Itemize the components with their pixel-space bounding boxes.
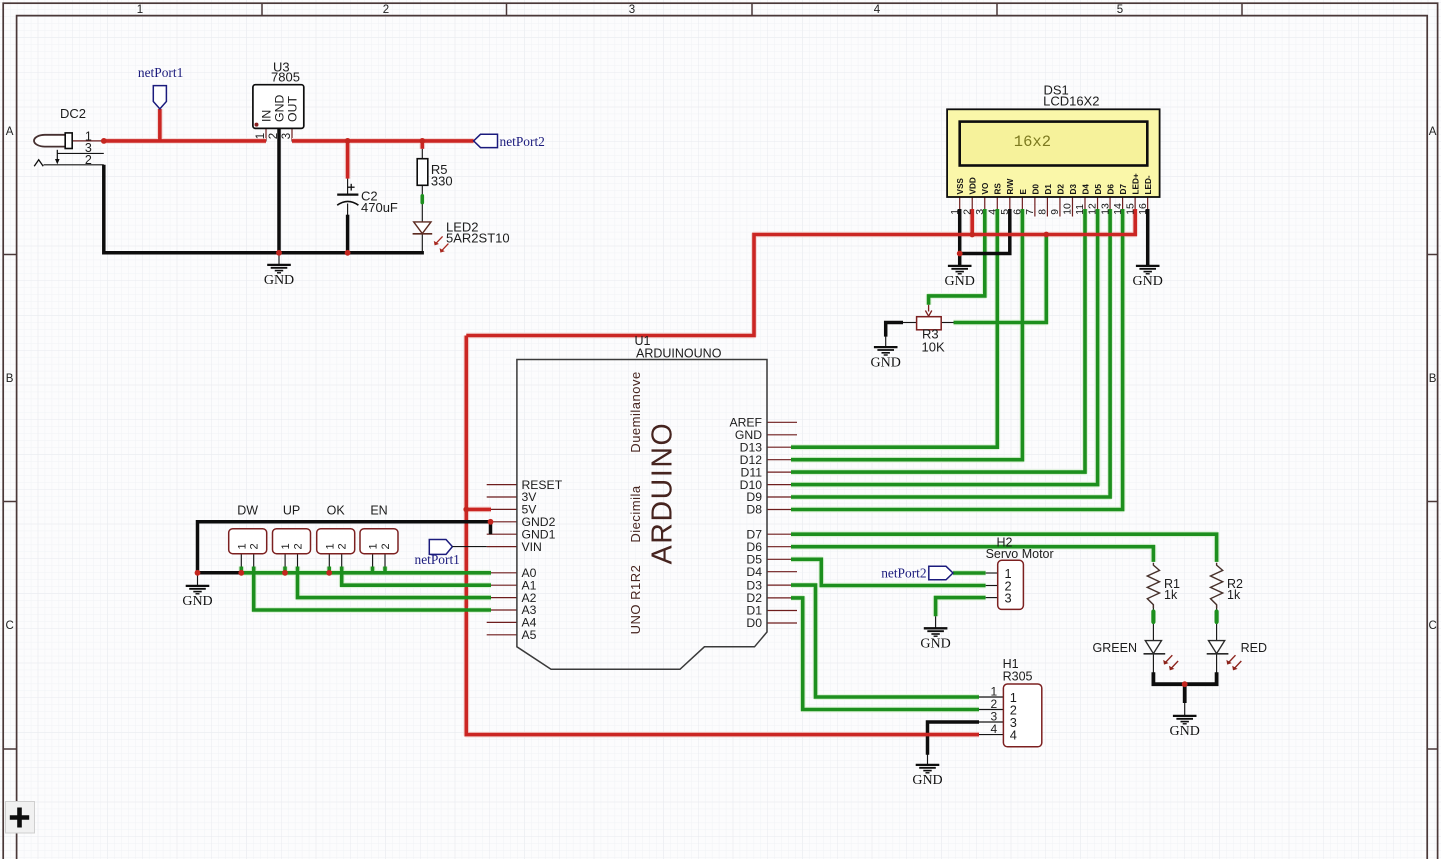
wire: H2 pin3 to ground	[936, 598, 986, 617]
button DW	[229, 529, 267, 554]
svg-text:10K: 10K	[922, 340, 945, 355]
ground (H1)	[916, 764, 940, 766]
svg-text:D3: D3	[1069, 184, 1078, 195]
wire: U3 OUT to netPort2 (5V rail)	[292, 139, 474, 143]
svg-text:1: 1	[324, 543, 336, 549]
svg-text:D0: D0	[1031, 184, 1040, 195]
ground (LCD LED-)	[1136, 265, 1160, 267]
svg-text:330: 330	[431, 173, 453, 188]
wire: A2 net UP pin2	[298, 567, 492, 598]
LED2 bottom lead	[421, 234, 423, 253]
svg-text:1: 1	[950, 209, 961, 215]
svg-text:8: 8	[1038, 209, 1049, 215]
wire: R1 to GREEN led segment	[1151, 612, 1155, 623]
svg-text:GREEN: GREEN	[1093, 641, 1137, 655]
wire: DC2 pin3 lead	[57, 152, 104, 154]
R5 bottom lead / LED2 top lead	[421, 185, 423, 222]
wire: R5 to LED2 green segment	[420, 196, 424, 203]
regulator U3 7805	[253, 85, 304, 129]
svg-text:D5: D5	[1094, 184, 1103, 195]
wire: DC2 pin1 lead	[72, 140, 104, 142]
svg-text:GND: GND	[920, 637, 950, 652]
svg-text:netPort1: netPort1	[138, 65, 183, 80]
svg-text:GND: GND	[945, 274, 975, 289]
svg-text:2: 2	[383, 4, 389, 16]
svg-text:5: 5	[1000, 209, 1011, 215]
R3 left lead	[903, 322, 917, 324]
svg-text:1: 1	[255, 133, 267, 139]
svg-text:OK: OK	[327, 504, 346, 518]
svg-text:EN: EN	[370, 504, 387, 518]
svg-text:R305: R305	[1003, 670, 1033, 684]
svg-text:4: 4	[1010, 727, 1017, 742]
svg-text:LED-: LED-	[1144, 175, 1153, 194]
LED2 5AR2ST10	[414, 222, 431, 234]
svg-text:B: B	[1429, 373, 1437, 385]
resistor R2 1k	[1211, 563, 1223, 609]
wire: A0 net (buttons to A0)	[240, 567, 244, 573]
R5 top lead	[421, 146, 423, 159]
svg-text:DW: DW	[237, 504, 258, 518]
svg-text:5: 5	[1117, 4, 1123, 16]
C2 top lead	[347, 176, 349, 195]
wire: D6 to R1	[791, 547, 1153, 562]
svg-text:VO: VO	[981, 182, 990, 194]
U1 Arduino right pin stubs	[767, 421, 797, 423]
R3 wiper arrow	[928, 303, 930, 312]
net tag netPort1 (top)	[153, 86, 166, 109]
ground (buttons)	[186, 585, 210, 587]
svg-text:A5: A5	[522, 628, 537, 642]
svg-text:C: C	[1428, 620, 1436, 632]
U3 pin 1 stub	[265, 128, 267, 141]
wire: A3 net DW pin2	[254, 567, 491, 611]
svg-text:16x2: 16x2	[1014, 133, 1051, 151]
MCU U1 ARDUINOUNO	[517, 360, 767, 670]
svg-text:UP: UP	[283, 504, 300, 518]
net tag netPort1 (at VIN)	[429, 540, 452, 555]
wire: GND junction to DW pin1	[198, 571, 242, 575]
connector DC2 (power jack)	[34, 135, 66, 147]
svg-text:netPort2: netPort2	[500, 134, 545, 149]
capacitor C2 470uF	[337, 194, 358, 196]
wire: DC2 pin2 lead	[44, 164, 104, 166]
wire: LCD VO to R3 wiper	[929, 209, 985, 305]
svg-text:2: 2	[85, 153, 92, 167]
svg-text:13: 13	[1100, 203, 1111, 215]
wire: R5 tap	[420, 141, 424, 149]
svg-text:2: 2	[337, 543, 349, 549]
svg-text:ARDUINO: ARDUINO	[647, 422, 679, 565]
svg-text:2: 2	[293, 543, 305, 549]
svg-text:VDD: VDD	[969, 177, 978, 194]
wire glow underlay	[104, 138, 266, 144]
wire: LCD E to D12	[791, 209, 1022, 460]
svg-text:3: 3	[975, 209, 986, 215]
LCD DS1 pin stubs (1-16)	[959, 197, 961, 217]
R3 right lead	[941, 322, 953, 324]
wire: C2 bottom to bus	[346, 215, 350, 253]
svg-text:2: 2	[380, 543, 392, 549]
svg-text:4: 4	[987, 209, 998, 215]
potentiometer R3 10K	[917, 317, 942, 330]
wire: ground bus to GND1	[489, 522, 493, 534]
button OK	[317, 529, 355, 554]
wire: DC2 pin2 to ground bus	[104, 165, 424, 253]
wire: C2 tap	[346, 141, 350, 179]
svg-text:D4: D4	[746, 565, 762, 579]
svg-text:GND: GND	[1170, 724, 1200, 739]
svg-text:1k: 1k	[1227, 588, 1241, 602]
net tag netPort2 (at servo)	[929, 566, 953, 580]
svg-text:GND: GND	[1133, 274, 1163, 289]
H2 pin stubs 1-3	[986, 572, 998, 574]
wire: R3 left to ground	[886, 323, 903, 337]
C2 bottom lead	[347, 204, 349, 217]
svg-text:Servo Motor: Servo Motor	[986, 547, 1054, 561]
ground (R3)	[874, 346, 898, 348]
wire: LCD D4 to D11	[791, 209, 1085, 472]
button EN	[360, 529, 398, 554]
resistor R5 330	[417, 159, 428, 186]
plus cursor icon	[6, 802, 35, 834]
GND stubs	[278, 253, 280, 266]
wire: netPort2 to H2 pin1	[953, 571, 986, 575]
svg-text:netPort2: netPort2	[881, 566, 926, 581]
net tag netPort2 (top)	[474, 134, 498, 147]
wire: H1 pin3 to ground	[928, 722, 980, 755]
svg-text:GND: GND	[912, 773, 942, 788]
wire: 5V rail to LCD LED+ (top run)	[466, 209, 1135, 336]
svg-text:11: 11	[1075, 204, 1086, 215]
svg-text:RS: RS	[994, 183, 1003, 195]
LED GREEN	[1145, 641, 1161, 654]
svg-text:D0: D0	[746, 616, 762, 630]
svg-text:RED: RED	[1241, 641, 1267, 655]
svg-text:1k: 1k	[1164, 588, 1178, 602]
U3 pin 3 stub	[291, 128, 293, 141]
svg-text:2: 2	[962, 209, 973, 215]
svg-text:7: 7	[1025, 209, 1036, 215]
svg-text:Diecimila: Diecimila	[628, 485, 643, 543]
button pin leads DW UP OK EN	[240, 554, 242, 567]
svg-text:VSS: VSS	[956, 178, 965, 195]
svg-text:470uF: 470uF	[361, 200, 398, 215]
svg-text:14: 14	[1113, 203, 1124, 215]
svg-text:IN: IN	[259, 110, 273, 122]
wire: LCD RS to D13	[791, 209, 997, 447]
wire: LCD VDD tap	[970, 209, 974, 235]
LED RED	[1209, 641, 1225, 654]
svg-text:12: 12	[1088, 203, 1099, 215]
svg-text:1: 1	[236, 543, 248, 549]
wire: D2 to H1 pin2	[791, 598, 979, 710]
ruler ticks left	[3, 254, 16, 256]
wire: R2 to RED led segment	[1214, 612, 1218, 623]
svg-text:15: 15	[1125, 203, 1136, 215]
svg-text:GND: GND	[264, 273, 294, 288]
svg-text:D2: D2	[1056, 184, 1065, 195]
svg-text:6: 6	[1013, 209, 1024, 215]
wire: U3 GND pin down	[277, 128, 281, 252]
svg-text:1: 1	[137, 4, 143, 16]
svg-text:C: C	[5, 620, 13, 632]
ground (H2)	[924, 627, 948, 629]
wire: LCD D5 to D10	[791, 209, 1098, 485]
U3 pin 2 stub	[278, 128, 280, 141]
svg-text:VIN: VIN	[522, 540, 542, 554]
svg-text:UNO R1R2: UNO R1R2	[628, 565, 643, 635]
svg-text:3: 3	[629, 4, 635, 16]
ruler ticks right	[1427, 254, 1437, 256]
wire: 5V loop to LCD and header	[466, 508, 491, 512]
svg-text:2: 2	[268, 133, 280, 139]
wire: LCD D6 to D9	[791, 209, 1110, 497]
wire: button ground bus	[198, 522, 491, 573]
svg-text:GND: GND	[182, 594, 212, 609]
svg-text:ARDUINOUNO: ARDUINOUNO	[636, 347, 722, 361]
wire: netPort1 tag drop	[158, 109, 162, 141]
wire: A1 net OK pin2	[342, 567, 491, 586]
svg-text:A: A	[1429, 126, 1437, 138]
wire: R3 right to 5V rail	[954, 235, 1047, 323]
button UP	[273, 529, 311, 554]
svg-text:3: 3	[1005, 590, 1012, 605]
svg-text:B: B	[6, 373, 14, 385]
ground (LEDs)	[1173, 715, 1197, 717]
svg-text:2: 2	[249, 543, 261, 549]
LCD module DS1 LCD16X2	[947, 109, 1160, 197]
svg-text:D7: D7	[1119, 184, 1128, 195]
svg-text:D6: D6	[1106, 184, 1115, 195]
wire: D5 to H2 pin2	[791, 559, 986, 585]
wire: LCD LED- to ground	[1146, 209, 1150, 266]
svg-text:10: 10	[1063, 203, 1074, 215]
svg-text:R/W: R/W	[1006, 178, 1015, 194]
junction dots	[101, 138, 107, 144]
R2 leads	[1216, 605, 1218, 612]
svg-text:4: 4	[990, 722, 997, 736]
svg-text:D4: D4	[1081, 184, 1090, 195]
H1 pin stubs 1-4	[979, 696, 1003, 698]
ground (U3)	[267, 264, 291, 266]
svg-text:E: E	[1019, 189, 1028, 195]
wire: LED cathode bus to ground	[1153, 672, 1216, 684]
svg-text:1: 1	[368, 543, 380, 549]
R1 leads	[1152, 605, 1154, 612]
wire: LCD R/W to ground junction	[960, 209, 1010, 254]
ground (LCD VSS)	[948, 265, 972, 267]
svg-text:DC2: DC2	[60, 106, 86, 121]
wire: LCD VSS to ground	[958, 209, 962, 266]
svg-text:Duemilanove: Duemilanove	[628, 371, 643, 452]
ruler ticks top	[261, 3, 263, 15]
svg-text:A: A	[6, 126, 14, 138]
svg-text:3: 3	[281, 133, 293, 139]
svg-text:5AR2ST10: 5AR2ST10	[446, 231, 510, 246]
U1 Arduino left pin stubs	[487, 484, 517, 486]
svg-text:1: 1	[280, 543, 292, 549]
svg-text:16: 16	[1138, 203, 1149, 215]
svg-text:7805: 7805	[271, 70, 300, 85]
svg-text:GND: GND	[273, 95, 287, 122]
svg-text:netPort1: netPort1	[415, 552, 460, 567]
svg-text:4: 4	[874, 4, 881, 16]
svg-text:D1: D1	[1044, 184, 1053, 195]
connector H1 R305	[1003, 684, 1041, 747]
svg-text:D8: D8	[746, 503, 762, 517]
wire: LCD D7 to D8	[791, 209, 1123, 510]
connector H2 Servo Motor	[998, 560, 1024, 609]
svg-text:LED+: LED+	[1132, 173, 1141, 194]
wire: +9V net DC2 to U3 IN	[104, 139, 266, 143]
svg-text:LCD16X2: LCD16X2	[1043, 93, 1099, 108]
svg-text:OUT: OUT	[286, 96, 300, 122]
wire: D7 to R2	[791, 534, 1217, 562]
resistor R1 1k	[1147, 563, 1159, 609]
svg-text:9: 9	[1050, 209, 1061, 215]
svg-text:GND: GND	[871, 355, 901, 370]
wire: D3 to H1 pin1	[791, 585, 979, 697]
